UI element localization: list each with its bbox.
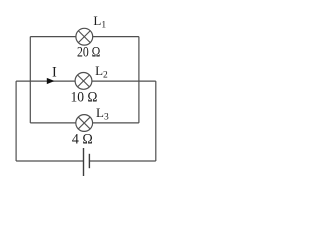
svg-text:4 Ω: 4 Ω: [72, 132, 93, 148]
lamp L1: [76, 28, 93, 45]
current arrow I: [47, 78, 55, 84]
svg-text:10 Ω: 10 Ω: [71, 90, 98, 106]
battery cell: [84, 148, 90, 176]
lamp L3: [76, 115, 93, 132]
wire: outer left rail: [15, 81, 17, 161]
wire: outer right rail: [155, 81, 157, 161]
lamp L2: [75, 73, 92, 90]
wire: left inner rail: [29, 37, 31, 123]
svg-text:I: I: [52, 64, 57, 80]
wire: L3 branch: [30, 122, 139, 124]
svg-text:20 Ω: 20 Ω: [77, 44, 101, 60]
wire: bottom right segment: [89, 160, 156, 162]
wire: bottom left segment: [16, 160, 83, 162]
wire: top branch (L1 branch): [30, 36, 139, 38]
wire: right inner rail: [138, 37, 140, 123]
wire: middle branch (L2 branch): [16, 80, 156, 82]
